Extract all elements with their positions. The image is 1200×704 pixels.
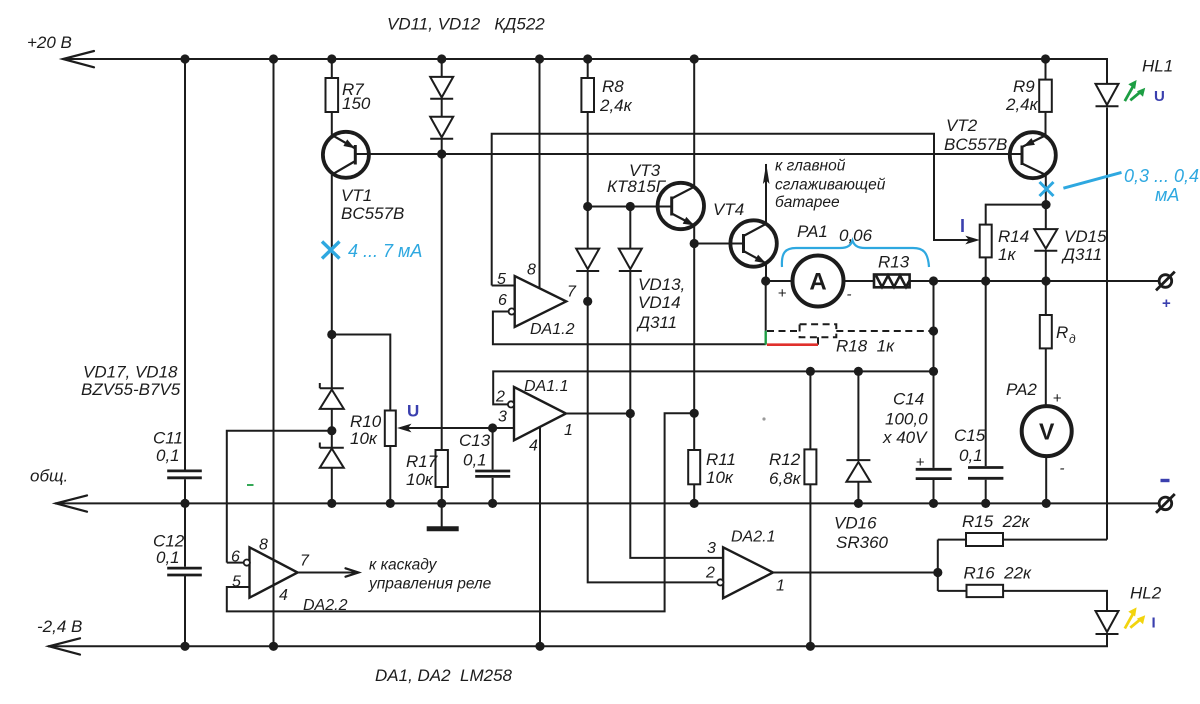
svg-text:к каскаду: к каскаду xyxy=(369,557,438,574)
svg-text:3: 3 xyxy=(498,409,507,426)
svg-text:R11: R11 xyxy=(706,450,736,469)
svg-text:C15: C15 xyxy=(954,426,986,445)
svg-text:C13: C13 xyxy=(459,431,491,450)
svg-text:PA1: PA1 xyxy=(797,222,828,241)
svg-text:BZV55-B7V5: BZV55-B7V5 xyxy=(81,380,181,399)
svg-text:HL1: HL1 xyxy=(1142,57,1173,76)
svg-text:-: - xyxy=(1060,460,1065,477)
svg-text:мА: мА xyxy=(1155,185,1179,205)
svg-text:0,1: 0,1 xyxy=(156,548,180,567)
svg-text:-2,4 В: -2,4 В xyxy=(37,617,82,636)
svg-text:VD14: VD14 xyxy=(638,293,681,312)
svg-text:к главной: к главной xyxy=(775,158,846,175)
svg-text:7: 7 xyxy=(567,284,577,301)
svg-text:-: - xyxy=(847,286,852,303)
svg-text:5: 5 xyxy=(497,271,506,288)
svg-text:PA2: PA2 xyxy=(1006,380,1037,399)
svg-text:Д311: Д311 xyxy=(636,313,677,332)
svg-text:+: + xyxy=(1053,390,1062,407)
svg-text:HL2: HL2 xyxy=(1130,584,1162,603)
svg-text:R17: R17 xyxy=(406,452,438,471)
svg-text:2: 2 xyxy=(705,565,715,582)
svg-text:5: 5 xyxy=(232,574,241,591)
svg-text:V: V xyxy=(1039,419,1055,445)
svg-text:2,4к: 2,4к xyxy=(1005,95,1039,114)
svg-text:I: I xyxy=(960,216,965,236)
svg-text:VD13,: VD13, xyxy=(638,275,685,294)
svg-text:VT2: VT2 xyxy=(946,116,978,135)
svg-text:4 ... 7 мА: 4 ... 7 мА xyxy=(348,241,422,261)
svg-text:4: 4 xyxy=(529,438,538,455)
svg-text:+: + xyxy=(1162,295,1171,312)
svg-text:2,4к: 2,4к xyxy=(599,96,633,115)
svg-text:R8: R8 xyxy=(602,77,624,96)
svg-text:0,1: 0,1 xyxy=(156,446,180,465)
svg-text:R15 22к: R15 22к xyxy=(962,512,1031,531)
svg-text:0,3 ... 0,4: 0,3 ... 0,4 xyxy=(1124,166,1199,186)
svg-text:A: A xyxy=(809,269,826,296)
svg-text:DA1.2: DA1.2 xyxy=(530,321,575,338)
svg-text:+: + xyxy=(916,454,925,471)
svg-text:1: 1 xyxy=(776,578,785,595)
svg-text:+20 В: +20 В xyxy=(27,33,72,52)
svg-text:8: 8 xyxy=(259,537,268,554)
svg-text:DA2.2: DA2.2 xyxy=(303,597,348,614)
svg-text:DA1, DA2 LM258: DA1, DA2 LM258 xyxy=(375,666,513,685)
svg-text:R: R xyxy=(1056,323,1068,342)
svg-text:R12: R12 xyxy=(769,450,801,469)
svg-text:I: I xyxy=(1152,615,1156,632)
svg-text:VD11, VD12 КД522: VD11, VD12 КД522 xyxy=(387,15,545,34)
svg-text:Д311: Д311 xyxy=(1061,245,1102,264)
svg-text:сглаживающей: сглаживающей xyxy=(775,177,886,194)
svg-text:100,0: 100,0 xyxy=(885,410,928,429)
svg-text:0,06: 0,06 xyxy=(839,226,873,245)
svg-text:10к: 10к xyxy=(350,429,378,448)
svg-text:7: 7 xyxy=(300,553,310,570)
svg-text:VD16: VD16 xyxy=(834,514,877,533)
svg-text:общ.: общ. xyxy=(30,467,68,486)
svg-text:C11: C11 xyxy=(153,429,183,448)
svg-text:VT4: VT4 xyxy=(713,200,744,219)
svg-text:BC557В: BC557В xyxy=(944,135,1007,154)
svg-text:150: 150 xyxy=(342,94,371,113)
svg-text:R18 1к: R18 1к xyxy=(836,337,895,356)
svg-text:0,1: 0,1 xyxy=(959,446,983,465)
svg-text:R13: R13 xyxy=(878,253,910,272)
svg-text:КТ815Г: КТ815Г xyxy=(607,177,667,196)
svg-text:U: U xyxy=(407,402,419,421)
svg-text:+: + xyxy=(778,285,787,302)
svg-text:6,8к: 6,8к xyxy=(769,469,802,488)
svg-text:10к: 10к xyxy=(406,470,434,489)
svg-text:U: U xyxy=(1154,88,1165,105)
svg-text:VD17, VD18: VD17, VD18 xyxy=(83,363,178,382)
svg-text:VT1: VT1 xyxy=(341,186,372,205)
svg-text:д: д xyxy=(1069,332,1076,346)
svg-text:3: 3 xyxy=(707,540,716,557)
svg-text:8: 8 xyxy=(527,262,536,279)
svg-text:1к: 1к xyxy=(998,245,1016,264)
svg-text:2: 2 xyxy=(495,389,505,406)
svg-text:6: 6 xyxy=(498,292,507,309)
svg-text:10к: 10к xyxy=(706,468,734,487)
svg-text:R9: R9 xyxy=(1013,77,1035,96)
svg-text:R14: R14 xyxy=(998,227,1029,246)
svg-text:1: 1 xyxy=(564,422,573,439)
svg-text:0,1: 0,1 xyxy=(463,451,487,470)
svg-text:BC557B: BC557B xyxy=(341,204,404,223)
svg-text:DA1.1: DA1.1 xyxy=(524,378,568,395)
svg-text:VD15: VD15 xyxy=(1064,227,1107,246)
svg-text:6: 6 xyxy=(231,549,240,566)
svg-text:R16 22к: R16 22к xyxy=(964,564,1033,583)
svg-text:4: 4 xyxy=(279,587,288,604)
svg-text:батарее: батарее xyxy=(775,194,840,211)
svg-text:x 40V: x 40V xyxy=(882,428,928,447)
svg-text:DA2.1: DA2.1 xyxy=(731,529,775,546)
svg-text:C14: C14 xyxy=(893,390,924,409)
svg-text:управления реле: управления реле xyxy=(368,576,492,593)
svg-text:SR360: SR360 xyxy=(836,533,889,552)
